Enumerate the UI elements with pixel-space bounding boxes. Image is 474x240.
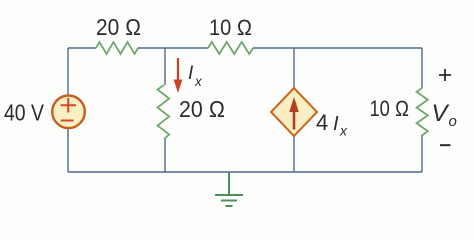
svg-text:o: o xyxy=(449,113,457,130)
svg-text:x: x xyxy=(194,74,203,89)
voltage source V1 40V circle xyxy=(52,96,85,129)
resistor R2 10ohm top zigzag xyxy=(208,42,253,54)
wire bottom xyxy=(68,171,422,173)
svg-text:I: I xyxy=(188,63,194,84)
svg-text:20 Ω: 20 Ω xyxy=(96,14,141,40)
svg-text:10 Ω: 10 Ω xyxy=(370,96,410,121)
minus sign inside source xyxy=(61,120,74,122)
svg-text:4: 4 xyxy=(316,110,328,135)
resistor R3 20ohm middle zigzag xyxy=(158,85,170,139)
wire middle branch upper xyxy=(164,48,166,85)
ground xyxy=(215,172,243,206)
resistor R4 10ohm right zigzag xyxy=(417,88,428,136)
plus sign inside source xyxy=(61,98,77,113)
svg-text:V: V xyxy=(432,100,450,127)
wire top from left corner to R1 xyxy=(68,47,96,49)
wire dependent-source branch upper xyxy=(293,48,295,88)
current arrow Ix xyxy=(174,58,183,93)
dependent current source diamond 4Ix xyxy=(271,88,317,136)
svg-text:10 Ω: 10 Ω xyxy=(209,15,252,40)
label plus Vo xyxy=(439,69,451,81)
wire dependent-source branch lower xyxy=(293,136,295,172)
wire right branch upper xyxy=(421,48,423,88)
svg-text:I: I xyxy=(333,113,339,135)
label minus Vo xyxy=(440,144,451,146)
wire left lower xyxy=(67,129,69,172)
arrow inside diamond xyxy=(289,97,299,130)
wire left upper xyxy=(67,48,69,95)
wire top from R2 to right corner xyxy=(253,47,422,49)
svg-text:20 Ω: 20 Ω xyxy=(179,96,225,122)
svg-text:x: x xyxy=(339,123,348,139)
resistor R1 20ohm top-left zigzag xyxy=(96,42,138,54)
wire right branch lower xyxy=(421,135,423,172)
wire middle branch lower xyxy=(164,139,166,172)
wire top between R1 and R2 xyxy=(138,47,208,49)
svg-text:40 V: 40 V xyxy=(4,100,45,126)
